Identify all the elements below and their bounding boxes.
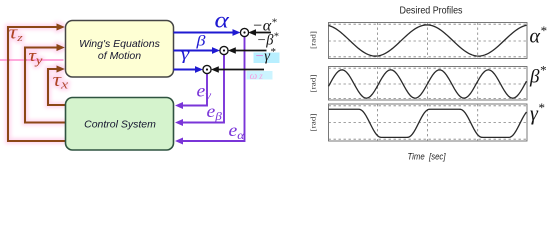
svg-text:β: β [195,32,206,49]
svg-text:of Motion: of Motion [98,50,141,62]
svg-text:[rad]: [rad] [310,75,318,93]
svg-text:[rad]: [rad] [310,31,318,49]
svg-text:Control System: Control System [84,119,156,131]
svg-text:α: α [215,8,230,33]
svg-text:[rad]: [rad] [310,114,318,132]
svg-text:Wing's Equations: Wing's Equations [79,38,160,50]
svg-text:ωz: ωz [250,70,264,82]
svg-text:Time [sec]: Time [sec] [408,151,446,161]
svg-text:Desired Profiles: Desired Profiles [400,5,463,16]
svg-text:γ: γ [181,45,190,64]
